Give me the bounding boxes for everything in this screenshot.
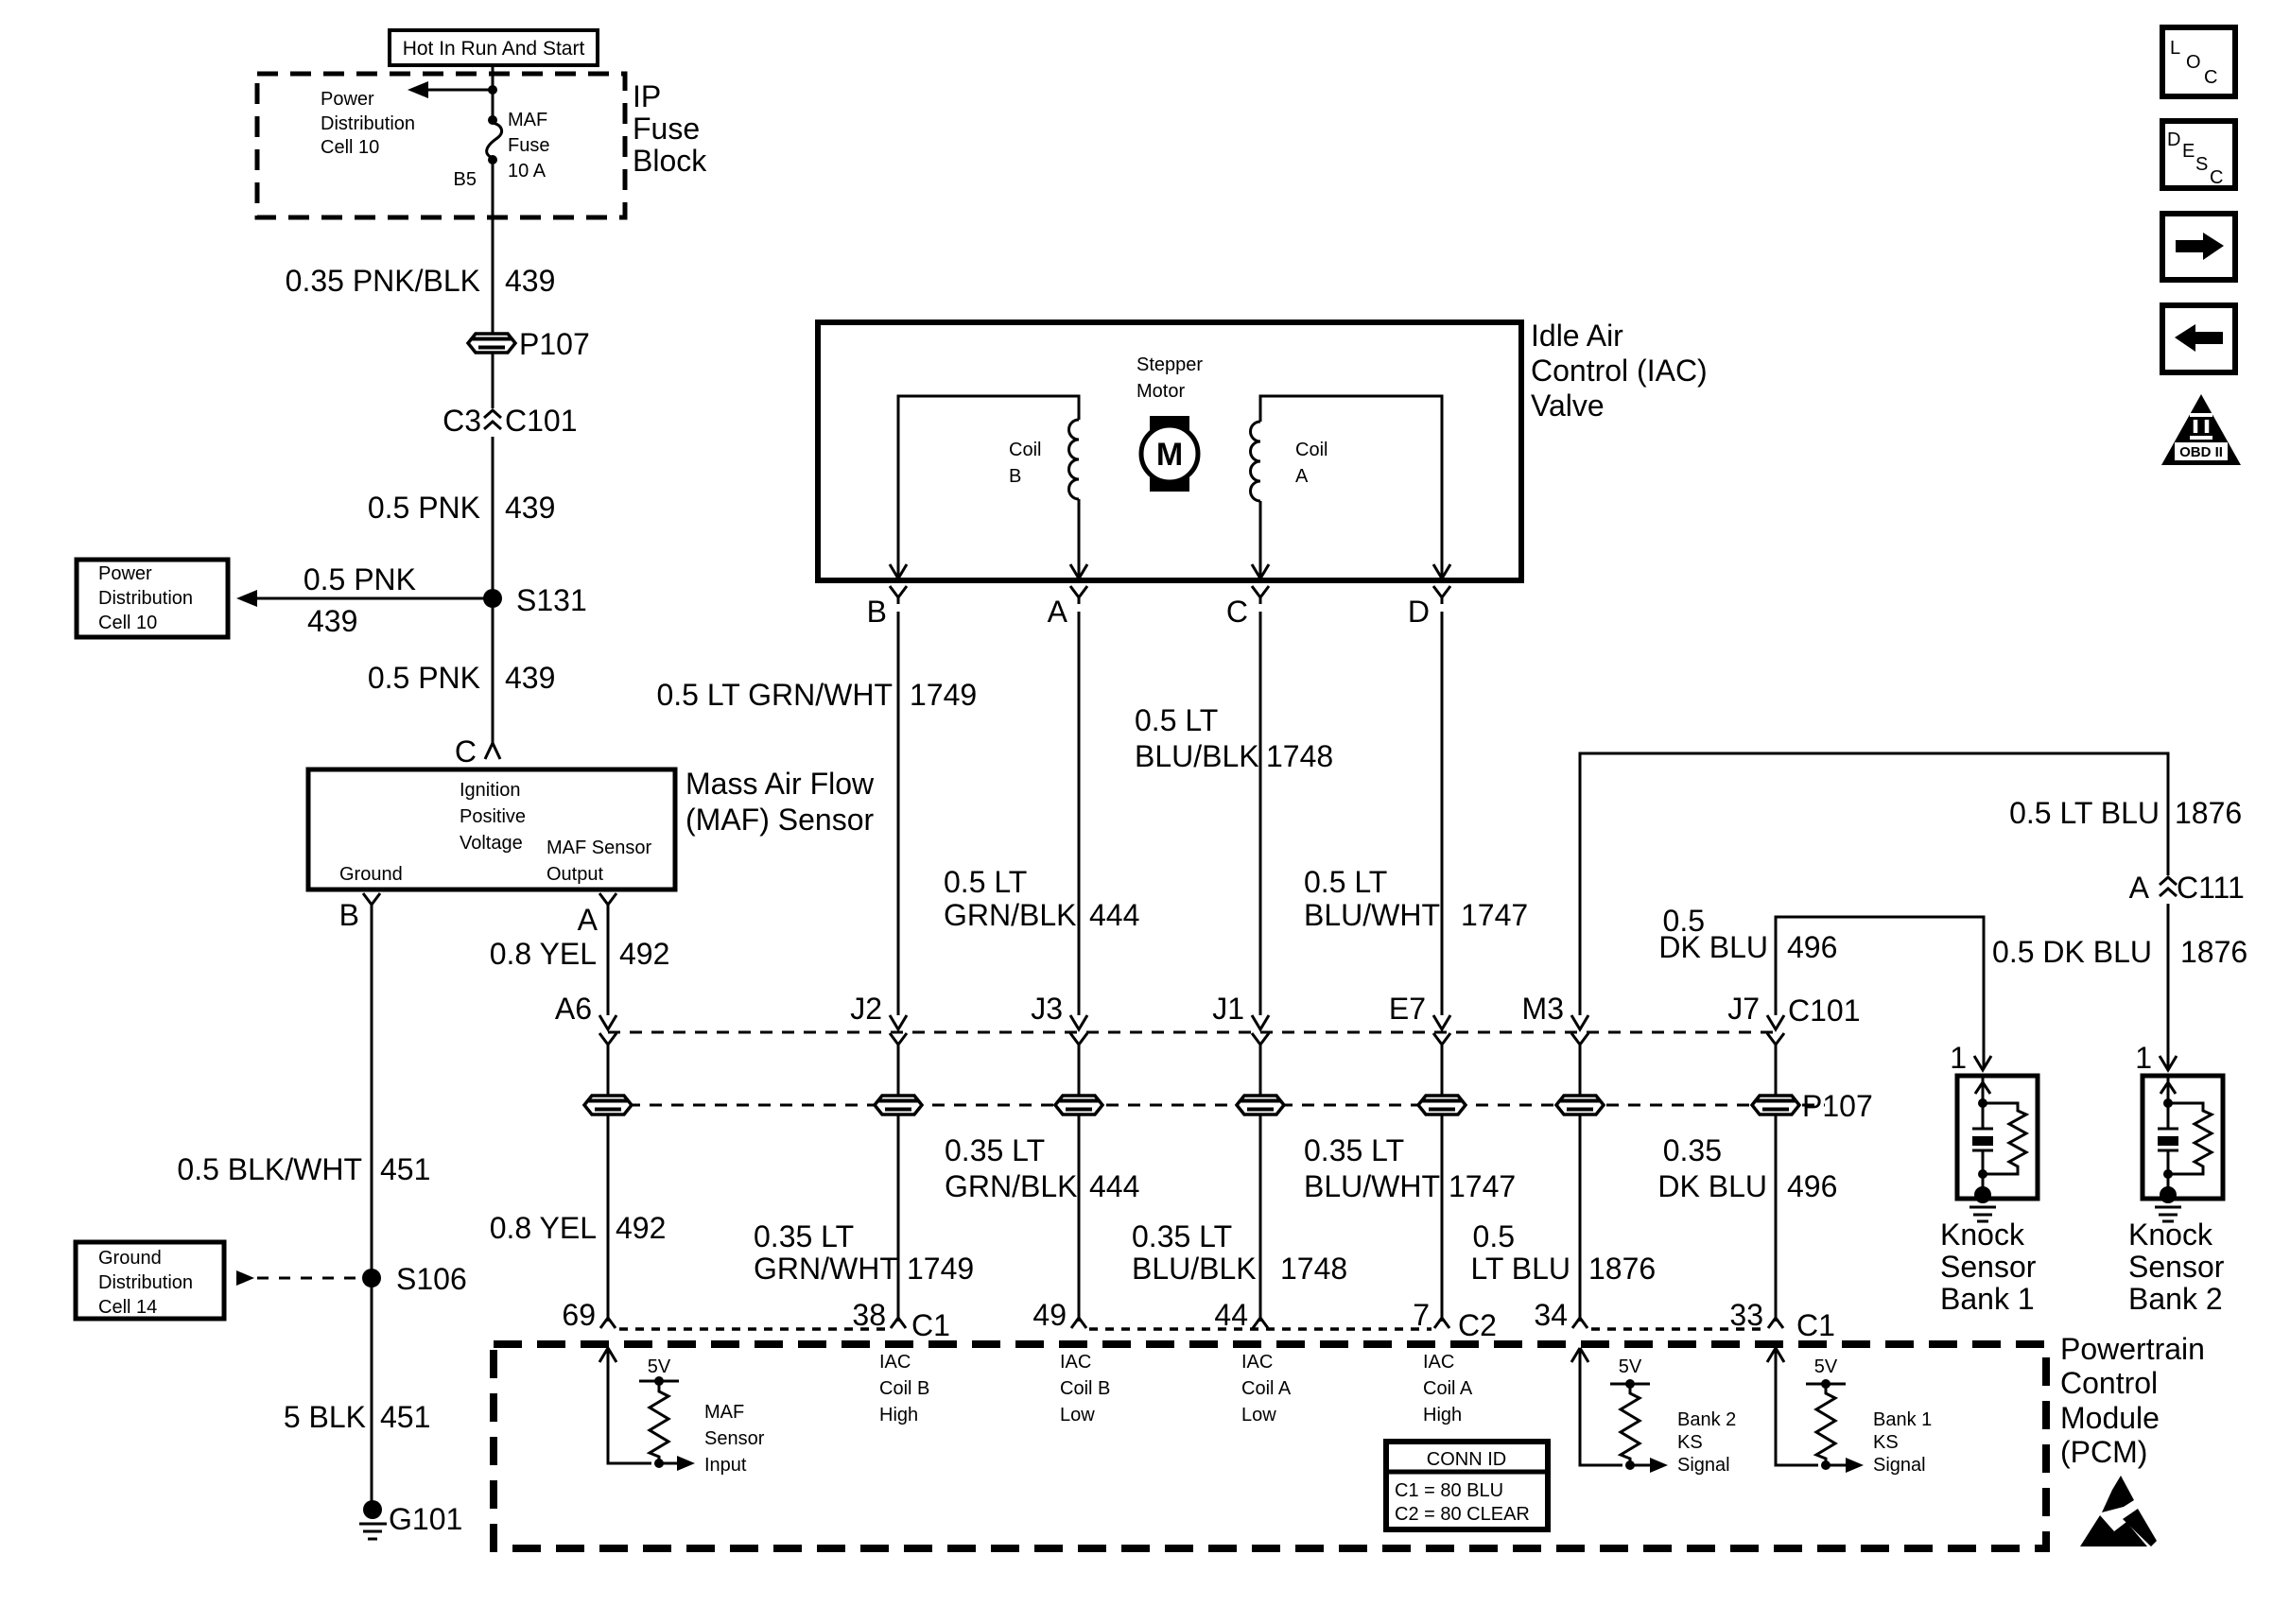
- svg-text:0.35 LT: 0.35 LT: [754, 1219, 854, 1253]
- svg-text:0.5 PNK: 0.5 PNK: [368, 491, 480, 525]
- svg-text:BLU/WHT: BLU/WHT: [1304, 1169, 1440, 1203]
- svg-text:Hot In Run And Start: Hot In Run And Start: [403, 38, 585, 60]
- wire knock bank1 KS: J7 corner over to knock sensor 1: [1776, 917, 1984, 1068]
- connector P107 grommet: [468, 334, 515, 353]
- wire dashed to S106: [236, 1270, 254, 1286]
- wire 439 PNK/BLK from fuse to P107: [492, 163, 495, 334]
- svg-text:MAF: MAF: [508, 110, 547, 130]
- svg-text:1876: 1876: [2175, 796, 2242, 830]
- resistor MAF pull-up: [650, 1381, 668, 1463]
- svg-text:M: M: [1156, 437, 1183, 473]
- grommet P107 pass-through at x=1525: [1418, 1096, 1466, 1114]
- svg-text:Distribution: Distribution: [98, 588, 193, 609]
- ESD symbol: [2102, 1476, 2134, 1512]
- icon OBD II triangle: [2161, 394, 2241, 465]
- svg-text:S106: S106: [396, 1262, 467, 1296]
- icon LOC: [2162, 27, 2235, 96]
- svg-text:Ground: Ground: [339, 864, 403, 885]
- pin 7 of PCM: [1434, 1304, 1449, 1328]
- ground at knock sensor Bank 1: [1974, 1186, 1991, 1203]
- svg-text:GRN/BLK: GRN/BLK: [944, 898, 1076, 932]
- svg-text:MAF Sensor: MAF Sensor: [547, 838, 651, 858]
- svg-text:C101: C101: [1788, 993, 1861, 1028]
- coil A winding loop: [1260, 396, 1442, 579]
- PCM connector pin row thin dashed lines: [619, 1327, 1764, 1331]
- svg-text:A: A: [2129, 871, 2150, 905]
- connector M3 at C101 row: [1571, 1015, 1588, 1029]
- svg-text:CONN ID: CONN ID: [1427, 1449, 1506, 1470]
- svg-text:Idle Air: Idle Air: [1531, 319, 1623, 353]
- svg-text:Output: Output: [547, 864, 603, 885]
- svg-text:Coil B: Coil B: [1060, 1378, 1110, 1399]
- svg-text:Input: Input: [704, 1455, 747, 1476]
- svg-text:GRN/WHT: GRN/WHT: [754, 1252, 898, 1286]
- pin 69 of PCM: [600, 1304, 616, 1328]
- connector J3 at C101 row: [1070, 1015, 1087, 1029]
- svg-text:Stepper: Stepper: [1136, 354, 1203, 375]
- svg-text:E7: E7: [1389, 992, 1426, 1026]
- svg-text:1749: 1749: [907, 1252, 974, 1286]
- Knock Sensor Bank 2 box: [2143, 1076, 2223, 1199]
- svg-text:C111: C111: [2177, 871, 2245, 905]
- svg-text:Power: Power: [98, 563, 152, 584]
- node Hot In Run And Start: [390, 30, 598, 65]
- svg-text:C1 = 80 BLU: C1 = 80 BLU: [1395, 1480, 1503, 1501]
- svg-text:J3: J3: [1031, 992, 1063, 1026]
- svg-text:34: 34: [1534, 1298, 1568, 1332]
- icon arrow left: [2162, 305, 2235, 372]
- svg-text:Distribution: Distribution: [321, 113, 415, 134]
- svg-text:439: 439: [307, 604, 357, 638]
- svg-text:B: B: [1009, 466, 1021, 487]
- svg-text:Coil: Coil: [1009, 440, 1041, 460]
- fuse F MAF 10A: [488, 115, 497, 125]
- svg-text:Coil B: Coil B: [879, 1378, 929, 1399]
- svg-text:L: L: [2170, 38, 2180, 59]
- wire S131 to MAF pin C: [492, 608, 495, 743]
- IAC pin arrows at box bottom: [890, 564, 907, 579]
- svg-text:492: 492: [619, 937, 669, 971]
- svg-text:0.5 LT: 0.5 LT: [1135, 703, 1218, 737]
- svg-text:C2: C2: [1458, 1308, 1497, 1342]
- svg-text:BLU/BLK: BLU/BLK: [1132, 1252, 1257, 1286]
- svg-text:B: B: [339, 898, 359, 932]
- svg-text:P107: P107: [1802, 1089, 1873, 1123]
- arrow Bank 1 KS Signal: [1826, 1464, 1846, 1467]
- svg-text:5 BLK: 5 BLK: [284, 1400, 366, 1434]
- arrow Bank 2 KS Signal: [1630, 1464, 1650, 1467]
- svg-text:444: 444: [1089, 1169, 1139, 1203]
- wires below connector row to grommet row: [607, 1047, 610, 1322]
- wire Bank 1 KS signal inside PCM: [1776, 1348, 1818, 1465]
- svg-text:1749: 1749: [910, 678, 977, 712]
- svg-text:DK BLU: DK BLU: [1657, 1169, 1767, 1203]
- svg-text:BLU/BLK: BLU/BLK: [1135, 739, 1259, 773]
- wire knock bank2 KS: M3 up over to C111 and knock sensor 2: [1580, 753, 2168, 1015]
- svg-text:KS: KS: [1873, 1432, 1899, 1453]
- svg-text:444: 444: [1089, 898, 1139, 932]
- svg-text:496: 496: [1787, 930, 1837, 964]
- svg-text:1748: 1748: [1280, 1252, 1347, 1286]
- svg-text:44: 44: [1214, 1298, 1248, 1332]
- svg-text:C3: C3: [442, 404, 481, 438]
- wire MAF sensor input inside PCM: [608, 1348, 651, 1463]
- svg-text:J2: J2: [850, 992, 882, 1026]
- svg-text:MAF: MAF: [704, 1402, 744, 1423]
- Mass Air Flow (MAF) Sensor box: [308, 769, 675, 890]
- svg-text:1748: 1748: [1266, 739, 1333, 773]
- connector line C101 dashed row: [608, 1031, 1776, 1034]
- svg-text:A: A: [578, 903, 599, 937]
- 5V rail: [639, 1380, 679, 1383]
- svg-text:7: 7: [1413, 1298, 1430, 1332]
- svg-text:C: C: [455, 734, 477, 769]
- svg-text:G101: G101: [389, 1502, 462, 1536]
- svg-text:1747: 1747: [1449, 1169, 1516, 1203]
- svg-text:33: 33: [1729, 1298, 1763, 1332]
- svg-text:Knock: Knock: [2128, 1218, 2213, 1252]
- svg-text:Ground: Ground: [98, 1248, 162, 1269]
- svg-text:GRN/BLK: GRN/BLK: [945, 1169, 1077, 1203]
- svg-text:0.5 PNK: 0.5 PNK: [304, 562, 416, 596]
- svg-text:C1: C1: [1796, 1308, 1835, 1342]
- svg-text:Bank 2: Bank 2: [2128, 1282, 2223, 1316]
- pin 34 of PCM: [1572, 1304, 1588, 1328]
- motor M symbol: [1150, 416, 1189, 492]
- svg-text:IAC: IAC: [1241, 1352, 1273, 1373]
- svg-text:439: 439: [505, 264, 555, 298]
- junction dot: [488, 85, 497, 95]
- svg-text:Voltage: Voltage: [460, 833, 523, 854]
- wire MAF output A down to pin 69: [607, 911, 610, 1015]
- grommet P107 pass-through at x=1671: [1556, 1096, 1604, 1114]
- svg-text:C: C: [2210, 167, 2223, 188]
- svg-text:1: 1: [2135, 1041, 2152, 1075]
- svg-text:Sensor: Sensor: [2128, 1250, 2225, 1284]
- svg-text:Fuse: Fuse: [633, 112, 700, 146]
- svg-text:P107: P107: [519, 327, 590, 361]
- connector A C111: [2158, 875, 2178, 904]
- svg-text:439: 439: [505, 491, 555, 525]
- node Ground Distribution Cell 14 box: [76, 1242, 224, 1319]
- Idle Air Control (IAC) Valve box: [818, 322, 1521, 580]
- svg-text:5V: 5V: [1619, 1356, 1642, 1377]
- wire MAF ground B down to G101: [371, 911, 373, 1507]
- svg-text:High: High: [879, 1405, 918, 1425]
- svg-text:LT BLU: LT BLU: [1470, 1252, 1570, 1286]
- svg-text:0.8 YEL: 0.8 YEL: [490, 1211, 597, 1245]
- grommet P107 pass-through at x=1141: [1055, 1096, 1102, 1114]
- svg-text:M3: M3: [1522, 992, 1564, 1026]
- grommet row dashed line: [584, 1104, 1825, 1107]
- svg-text:High: High: [1423, 1405, 1462, 1425]
- svg-text:0.35 LT: 0.35 LT: [1304, 1133, 1404, 1167]
- connector J1 at C101 row: [1252, 1015, 1269, 1029]
- svg-text:A6: A6: [555, 992, 592, 1026]
- svg-text:Module: Module: [2060, 1401, 2160, 1435]
- svg-text:Low: Low: [1060, 1405, 1095, 1425]
- svg-text:Ignition: Ignition: [460, 780, 521, 801]
- svg-text:451: 451: [380, 1400, 430, 1434]
- svg-text:0.35 LT: 0.35 LT: [1132, 1219, 1232, 1253]
- svg-text:Positive: Positive: [460, 806, 526, 827]
- coil B winding loop: [898, 396, 1079, 579]
- arrow MAF Sensor Input: [659, 1462, 677, 1465]
- svg-text:D: D: [1408, 595, 1430, 629]
- wire Bank 2 KS signal inside PCM: [1580, 1348, 1622, 1465]
- resistor in knock sensor Bank 2: [2168, 1103, 2212, 1174]
- svg-text:S131: S131: [516, 583, 587, 617]
- connector J2 at C101 row: [890, 1015, 907, 1029]
- wire IAC C down: [1259, 612, 1262, 1015]
- svg-text:IAC: IAC: [1423, 1352, 1454, 1373]
- svg-text:(PCM): (PCM): [2060, 1435, 2147, 1469]
- connector A6 at C101 row: [599, 1015, 616, 1029]
- svg-text:Cell 10: Cell 10: [321, 137, 379, 158]
- svg-text:Bank 2: Bank 2: [1677, 1409, 1736, 1430]
- svg-text:C101: C101: [505, 404, 578, 438]
- svg-text:0.5 DK BLU: 0.5 DK BLU: [1992, 935, 2152, 969]
- capacitor in knock sensor Bank 1: [1972, 1103, 1993, 1129]
- svg-text:Sensor: Sensor: [704, 1428, 765, 1449]
- svg-text:Motor: Motor: [1136, 381, 1185, 402]
- svg-text:Signal: Signal: [1677, 1455, 1730, 1476]
- svg-text:B: B: [867, 595, 887, 629]
- svg-text:Block: Block: [633, 144, 707, 178]
- wire arrow to power distribution cell 10: [427, 89, 493, 92]
- svg-text:BLU/WHT: BLU/WHT: [1304, 898, 1440, 932]
- svg-text:OBD II: OBD II: [2179, 444, 2223, 460]
- svg-text:1876: 1876: [2180, 935, 2247, 969]
- splice S131: [483, 589, 502, 608]
- svg-text:0.5: 0.5: [1473, 1219, 1515, 1253]
- svg-text:KS: KS: [1677, 1432, 1703, 1453]
- connector E7 at C101 row: [1433, 1015, 1450, 1029]
- svg-text:B5: B5: [454, 169, 477, 190]
- svg-text:A: A: [1048, 595, 1068, 629]
- svg-text:Power: Power: [321, 89, 374, 110]
- node CONN ID box: [1386, 1442, 1548, 1529]
- icon arrow right: [2162, 214, 2235, 280]
- wire IAC B down: [897, 612, 900, 1015]
- svg-text:1876: 1876: [1588, 1252, 1656, 1286]
- wire to C101: [492, 353, 495, 598]
- svg-text:69: 69: [562, 1298, 596, 1332]
- connector C3 C101: [482, 408, 503, 437]
- svg-text:C: C: [2204, 67, 2217, 88]
- ground at knock sensor Bank 2: [2160, 1186, 2177, 1203]
- svg-text:49: 49: [1032, 1298, 1067, 1332]
- IP Fuse Block dashed box: [257, 74, 625, 217]
- ground G101: [363, 1500, 382, 1519]
- svg-text:5V: 5V: [1814, 1356, 1838, 1377]
- svg-text:492: 492: [616, 1211, 666, 1245]
- svg-text:Coil A: Coil A: [1423, 1378, 1473, 1399]
- svg-text:0.35 LT: 0.35 LT: [945, 1133, 1045, 1167]
- svg-text:J1: J1: [1212, 992, 1244, 1026]
- grommet P107 pass-through at x=1333: [1237, 1096, 1284, 1114]
- Powertrain Control Module (PCM) dashed box: [494, 1344, 2046, 1548]
- svg-text:Bank 1: Bank 1: [1873, 1409, 1932, 1430]
- svg-text:Distribution: Distribution: [98, 1272, 193, 1293]
- svg-text:Cell 14: Cell 14: [98, 1297, 157, 1318]
- Knock Sensor Bank 1 box: [1957, 1076, 2038, 1199]
- resistor Bank 1 KS pull-up: [1816, 1384, 1835, 1465]
- svg-text:Bank 1: Bank 1: [1940, 1282, 2035, 1316]
- svg-text:Valve: Valve: [1531, 389, 1605, 423]
- svg-text:A: A: [1295, 466, 1309, 487]
- svg-text:S: S: [2195, 154, 2208, 175]
- svg-text:J7: J7: [1727, 992, 1760, 1026]
- svg-text:0.5 LT: 0.5 LT: [1304, 865, 1387, 899]
- svg-text:0.5 LT GRN/WHT: 0.5 LT GRN/WHT: [656, 678, 893, 712]
- pin 38 of PCM: [891, 1304, 906, 1328]
- svg-text:C: C: [1226, 595, 1248, 629]
- resistor in knock sensor Bank 1: [1983, 1103, 2026, 1174]
- svg-text:E: E: [2182, 141, 2195, 162]
- svg-text:0.5 BLK/WHT: 0.5 BLK/WHT: [177, 1152, 362, 1186]
- svg-text:Coil: Coil: [1295, 440, 1327, 460]
- connector J7 at C101 row: [1767, 1015, 1784, 1029]
- svg-text:Cell 10: Cell 10: [98, 613, 157, 633]
- svg-text:10 A: 10 A: [508, 161, 547, 181]
- svg-text:Control: Control: [2060, 1366, 2158, 1400]
- splice S106: [362, 1269, 381, 1287]
- svg-text:0.8 YEL: 0.8 YEL: [490, 937, 597, 971]
- svg-text:Control (IAC): Control (IAC): [1531, 354, 1708, 388]
- svg-text:Mass Air Flow: Mass Air Flow: [685, 767, 875, 801]
- svg-text:Knock: Knock: [1940, 1218, 2025, 1252]
- svg-text:O: O: [2186, 52, 2201, 73]
- svg-text:0.5 LT: 0.5 LT: [944, 865, 1027, 899]
- svg-text:5V: 5V: [648, 1356, 671, 1377]
- svg-text:0.5 LT BLU: 0.5 LT BLU: [2009, 796, 2160, 830]
- pin 44 of PCM: [1253, 1304, 1268, 1328]
- wire hot feed into fuse block: [492, 65, 495, 119]
- capacitor in knock sensor Bank 2: [2158, 1103, 2178, 1129]
- wire IAC A down: [1078, 612, 1081, 1015]
- svg-text:Low: Low: [1241, 1405, 1276, 1425]
- svg-text:Fuse: Fuse: [508, 135, 549, 156]
- svg-text:Sensor: Sensor: [1940, 1250, 2037, 1284]
- svg-text:(MAF) Sensor: (MAF) Sensor: [685, 803, 874, 837]
- svg-text:IAC: IAC: [879, 1352, 911, 1373]
- svg-text:IAC: IAC: [1060, 1352, 1091, 1373]
- svg-text:496: 496: [1787, 1169, 1837, 1203]
- svg-text:0.35: 0.35: [1663, 1133, 1722, 1167]
- svg-text:0.5 PNK: 0.5 PNK: [368, 661, 480, 695]
- grommet P107 pass-through at x=643: [584, 1096, 632, 1114]
- grommet P107 pass-through at x=950: [875, 1096, 922, 1114]
- grommet P107 pass-through at x=1878: [1752, 1096, 1799, 1114]
- icon DESC: [2162, 121, 2235, 188]
- svg-text:38: 38: [852, 1298, 886, 1332]
- svg-text:D: D: [2167, 130, 2180, 150]
- resistor Bank 2 KS pull-up: [1621, 1384, 1640, 1465]
- svg-text:1747: 1747: [1461, 898, 1528, 932]
- svg-text:0.35 PNK/BLK: 0.35 PNK/BLK: [286, 264, 480, 298]
- node Power Distribution Cell 10 box: [77, 560, 228, 637]
- svg-text:Coil A: Coil A: [1241, 1378, 1292, 1399]
- svg-text:Powertrain: Powertrain: [2060, 1332, 2205, 1366]
- pin 49 of PCM: [1071, 1304, 1086, 1328]
- svg-text:Signal: Signal: [1873, 1455, 1926, 1476]
- pin 33 of PCM: [1768, 1304, 1783, 1328]
- svg-text:1: 1: [1950, 1041, 1967, 1075]
- svg-text:C2 = 80 CLEAR: C2 = 80 CLEAR: [1395, 1504, 1530, 1525]
- svg-text:451: 451: [380, 1152, 430, 1186]
- svg-text:439: 439: [505, 661, 555, 695]
- svg-text:IP: IP: [633, 79, 661, 113]
- svg-text:C1: C1: [911, 1308, 950, 1342]
- svg-text:DK BLU: DK BLU: [1658, 930, 1768, 964]
- wire S131 branch to power distribution: [255, 597, 493, 600]
- wire IAC D down: [1441, 612, 1444, 1015]
